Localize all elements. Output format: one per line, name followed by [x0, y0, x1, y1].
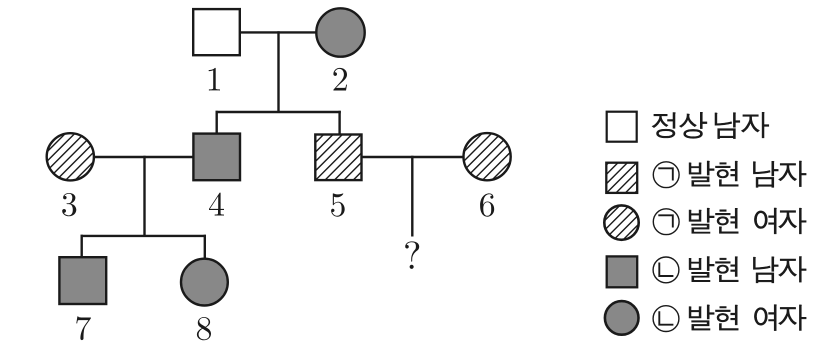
individual 5: trait-A affected male (hatched square) [267, 133, 411, 183]
legend mark: circled giyeok (trait A) row 2 [653, 162, 679, 188]
individual 7: trait-B affected male (gray square) [59, 257, 106, 304]
individual 6: trait-A affected female (hatched circle) [415, 131, 560, 182]
legend text: 정상 남자 [652, 113, 675, 138]
label: number 7 [76, 316, 91, 340]
legend text: 발현 남자 (trait B) [689, 257, 714, 282]
label: number 6 [480, 193, 494, 216]
wire: couple line between 5 and 6 [362, 156, 463, 158]
legend text: 발현 여자 (trait A) [689, 208, 714, 233]
wire: vertical drop from couple 3-4 to sibship bar [143, 156, 145, 236]
wire: sibship bar of children 4 and 5 [216, 111, 341, 113]
individual 2: trait-B affected female (gray circle) [316, 8, 364, 56]
individual 4: trait-B affected male (gray square) [193, 134, 240, 181]
individual 8: trait-B affected female (gray circle) [181, 259, 228, 306]
individual 1: normal male (white square) [193, 9, 240, 55]
wire: drop to individual 5 [338, 111, 340, 135]
wire: vertical drop from couple 1-2 to sibship bar [277, 31, 279, 112]
label: number 2 [333, 68, 347, 91]
wire: drop to individual 7 [80, 235, 82, 257]
individual 3: trait-A affected female (hatched circle) [0, 131, 143, 182]
legend text: 발현 여자 (trait B) [689, 305, 714, 330]
label: question mark for unknown child [405, 241, 419, 269]
legend symbol: trait-A male hatched square [576, 161, 667, 195]
wire: drop to individual 4 [215, 111, 217, 134]
legend symbol: trait-B female gray circle [605, 301, 639, 335]
label: number 5 [331, 193, 345, 216]
wire: vertical drop from couple 5-6 to unknown child ? [411, 156, 413, 237]
legend text: 발현 남자 (trait A) [689, 161, 714, 186]
legend mark: circled giyeok (trait A) row 3 [653, 209, 679, 235]
legend mark: circled nieun (trait B) row 5 [653, 306, 679, 332]
label: number 1 [209, 68, 220, 91]
label: number 8 [197, 317, 211, 340]
wire: sibship bar of children 7 and 8 [81, 235, 207, 237]
wire: couple line between 3 and 4 [95, 156, 193, 158]
label: number 4 [209, 193, 224, 216]
label: number 3 [62, 193, 76, 216]
legend symbol: trait-B male gray square [607, 256, 638, 287]
legend mark: circled nieun (trait B) row 4 [653, 257, 679, 283]
legend symbol: trait-A female hatched circle [565, 203, 679, 241]
wire: couple line between 1 and 2 [241, 31, 316, 33]
wire: drop to individual 8 [204, 235, 206, 259]
legend symbol: normal male white square [607, 112, 637, 142]
